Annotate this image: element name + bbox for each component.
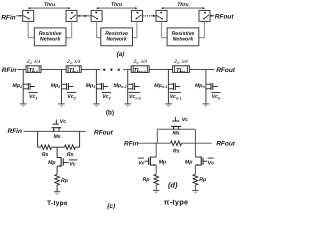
wire main line segment TL2 to break <box>81 69 100 71</box>
svg-text:RFin: RFin <box>8 128 22 135</box>
transistor Mp2 of section (b) <box>62 70 74 104</box>
svg-text:Mp: Mp <box>48 160 56 166</box>
label Vc3 with overline <box>102 92 111 100</box>
Thru wire stage 1 with arrowheads <box>29 7 69 9</box>
transistor Mpn-2 of section (b) <box>128 70 140 104</box>
svg-text:Mp2: Mp2 <box>51 83 61 89</box>
svg-text:T-type: T-type <box>47 200 68 207</box>
transistor Mpn of section (b) <box>206 70 218 104</box>
wire bypass path right riser (d) <box>194 129 196 143</box>
svg-text:Mp1: Mp1 <box>13 83 23 89</box>
wire right Mp source to Rp (d) <box>194 165 196 174</box>
ground under Mpn-2 <box>124 104 131 108</box>
svg-text:Vc: Vc <box>138 160 144 166</box>
label Vcn-2 with overline <box>129 92 141 100</box>
svg-text:Thru: Thru <box>44 2 56 8</box>
wire RF main line (c) <box>24 130 86 132</box>
wire S1R to S2L with junction dot <box>77 15 91 17</box>
svg-text:Z0, λ/4: Z0, λ/4 <box>66 59 81 65</box>
svg-text:(a): (a) <box>117 51 125 58</box>
wire Mp source down to Rp (c) <box>56 166 58 174</box>
svg-text:Vc3: Vc3 <box>102 94 110 100</box>
label Vcn with overline <box>211 92 221 100</box>
wire RF main line right segment (d) <box>182 142 212 144</box>
wire main line segment TLn to RFout <box>189 69 214 71</box>
svg-text:RFout: RFout <box>215 14 235 21</box>
switch S3R throw contact dot <box>204 12 206 14</box>
svg-text:RFout: RFout <box>94 129 114 136</box>
label Vc2 with overline <box>67 92 76 100</box>
wire S2R to S3L dotted continuation <box>143 15 145 17</box>
switch S1R arm <box>71 15 76 19</box>
svg-text:TL1: TL1 <box>29 68 38 74</box>
transistor Ms (c) series bypass switch <box>51 120 61 131</box>
ground (c) <box>54 192 60 195</box>
wire left Mp source to Rp (d) <box>155 165 157 174</box>
wire left drop of T network <box>37 131 39 147</box>
svg-text:(d): (d) <box>168 181 178 190</box>
svg-text:Vc1: Vc1 <box>29 94 37 100</box>
svg-text:Mp: Mp <box>159 159 167 165</box>
svg-text:Vc: Vc <box>182 117 188 123</box>
switch S1R box <box>66 10 77 21</box>
label Vc with overline left (d) <box>138 158 145 166</box>
wire bottom path middle <box>52 146 65 148</box>
ground under Mp2 <box>58 104 65 108</box>
wire S3R to RFout with junction dot <box>210 15 214 17</box>
wire S2R bottom to resistive network box 2 (gray) <box>132 22 137 38</box>
label Vc1 with overline <box>29 92 38 100</box>
svg-text:Z0, λ/4: Z0, λ/4 <box>132 59 147 65</box>
svg-text:Ms: Ms <box>53 134 60 140</box>
svg-text:Mpn-2: Mpn-2 <box>114 83 127 89</box>
svg-text:Rs: Rs <box>42 152 49 158</box>
switch S2R throw contact dot <box>136 12 138 14</box>
ground under Mpn-1 <box>165 104 172 108</box>
transistor Mp left (d) shunt switch, gate to the left <box>145 143 157 166</box>
svg-text:TLn-1: TLn-1 <box>133 68 145 74</box>
resistor Rp left (d) <box>154 174 159 185</box>
transistor Mpn-1 of section (b) <box>168 70 180 104</box>
transmission line TL1 <box>26 66 41 73</box>
transmission line TL2 <box>66 66 81 73</box>
switch S3L box <box>156 10 167 21</box>
label Vc with overline (c) <box>69 160 78 168</box>
wire main line segment break to TLn-1 <box>123 69 131 71</box>
svg-text:(b): (b) <box>106 110 114 117</box>
transistor Mp3 of section (b) <box>96 70 108 104</box>
svg-text:RFout: RFout <box>216 141 236 148</box>
svg-text:Vc2: Vc2 <box>67 94 75 100</box>
svg-text:Vc: Vc <box>60 119 66 125</box>
resistor Rs left (c) <box>41 145 52 150</box>
switch S2L arm <box>92 16 98 19</box>
svg-text:RFin: RFin <box>124 141 138 148</box>
transistor Mp right (d) shunt switch, gate to the right <box>195 143 207 166</box>
switch S1L arm <box>23 16 29 19</box>
svg-text:Vcn-2: Vcn-2 <box>129 94 141 100</box>
svg-text:Thru: Thru <box>111 2 123 8</box>
transistor Mp1 of section (b) <box>23 70 35 104</box>
svg-text:Network: Network <box>173 37 195 43</box>
switch S3L throw contact dot <box>160 12 162 14</box>
wire bottom path left <box>38 146 41 148</box>
svg-text:Ms: Ms <box>172 130 179 136</box>
transistor Mp (c) shunt switch <box>57 157 69 167</box>
svg-text:RFin: RFin <box>2 67 16 74</box>
svg-text:Rp: Rp <box>61 178 68 184</box>
wire Rp to ground (c) <box>56 185 58 192</box>
svg-text:RFin: RFin <box>1 14 15 21</box>
ellipsis dots on RF line <box>103 69 105 71</box>
wire S2L bottom to resistive network box 2 (gray) <box>97 22 101 38</box>
resistive network box 2 <box>101 28 133 46</box>
svg-text:Rs: Rs <box>173 148 180 154</box>
svg-text:π-type: π-type <box>164 198 189 207</box>
switch S1R throw contact dot <box>71 12 73 14</box>
wire RFin to switch S1L with arrowhead <box>16 15 20 17</box>
switch S2L box <box>91 10 102 21</box>
resistor Rs right (c) <box>65 145 76 150</box>
svg-text:RFout: RFout <box>216 67 236 74</box>
Thru wire stage 3 with arrowheads <box>162 7 204 9</box>
svg-text:Mpn-1: Mpn-1 <box>154 83 167 89</box>
resistor Rp (c) <box>55 174 60 185</box>
svg-text:Thru: Thru <box>177 2 189 8</box>
wire bypass path top (d) <box>157 128 195 130</box>
svg-text:TLn: TLn <box>176 68 186 74</box>
wire main line segment RFin to TL1 <box>17 69 26 71</box>
wire bottom path right <box>75 146 79 148</box>
svg-text:Vc: Vc <box>69 162 75 168</box>
svg-text:Network: Network <box>106 37 128 43</box>
wire main line segment TLn-1 to TLn <box>149 69 172 71</box>
svg-text:Mpn: Mpn <box>195 83 206 89</box>
wire S1R bottom to resistive network box 1 (gray) <box>66 22 72 38</box>
wire RF main line left segment (d) <box>138 142 171 144</box>
svg-text:Z0, λ/4: Z0, λ/4 <box>26 59 41 65</box>
svg-text:Mp: Mp <box>185 159 193 165</box>
svg-text:Vcn: Vcn <box>212 94 221 100</box>
ground right (d) <box>192 191 198 194</box>
wire Rp left to ground (d) <box>155 185 157 191</box>
svg-text:Rp: Rp <box>143 177 150 183</box>
svg-text:Rp: Rp <box>199 177 206 183</box>
wire main line segment TL1 to TL2 <box>41 69 66 71</box>
wire S3R bottom to resistive network box 3 (gray) <box>199 22 205 38</box>
transmission line TLn-1 <box>131 66 149 73</box>
ground under Mp3 <box>93 104 100 108</box>
svg-text:Network: Network <box>40 37 62 43</box>
Thru wire stage 2 with arrowheads <box>97 7 136 9</box>
wire S3L bottom to resistive network box 3 (gray) <box>162 22 168 38</box>
resistive network box 3 <box>167 28 199 46</box>
resistor Rp right (d) <box>193 174 198 185</box>
svg-text:TL2: TL2 <box>69 68 78 74</box>
svg-text:(c): (c) <box>107 203 115 210</box>
switch S2R arm <box>136 15 141 19</box>
svg-text:Vcn-1: Vcn-1 <box>170 94 182 100</box>
transistor Ms (d) series bypass switch <box>171 117 181 129</box>
switch S2R box <box>131 10 142 21</box>
wire right drop of T network <box>79 131 81 147</box>
wire S1L bottom to resistive network box 1 (gray) <box>28 22 34 38</box>
label Vcn-1 with overline <box>169 92 181 100</box>
wire bypass path left riser (d) <box>156 129 158 143</box>
resistor Rs (d) series <box>171 141 182 146</box>
switch S3R box <box>199 10 210 21</box>
ground under Mpn <box>203 104 210 108</box>
wire center node of T down to Mp <box>56 147 58 157</box>
ground left (d) <box>153 191 159 194</box>
svg-text:Rs: Rs <box>67 152 74 158</box>
switch S2L throw contact dot <box>95 12 97 14</box>
label Vc with overline right (d) <box>208 158 215 166</box>
svg-text:Vc: Vc <box>208 160 214 166</box>
transmission line TLn <box>173 66 190 73</box>
wire Rp right to ground (d) <box>194 185 196 191</box>
switch S3L arm <box>157 16 163 19</box>
ground under Mp1 <box>20 104 27 108</box>
svg-text:Z0, λ/4: Z0, λ/4 <box>173 59 188 65</box>
switch S1L box <box>23 10 34 21</box>
resistive network box 1 <box>34 28 66 46</box>
switch S3R arm <box>204 15 209 19</box>
switch S1L throw contact dot <box>27 12 29 14</box>
svg-text:Mp3: Mp3 <box>86 83 96 89</box>
